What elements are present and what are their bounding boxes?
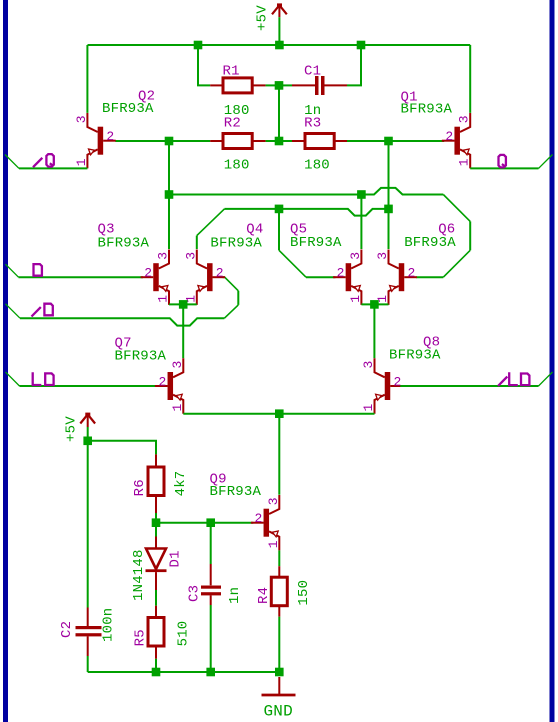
svg-text:2: 2	[106, 129, 114, 144]
svg-text:R3: R3	[304, 115, 321, 131]
svg-text:2: 2	[254, 511, 262, 526]
node R1/C1 mid	[275, 81, 284, 90]
wire2 hop under Q5 collector line	[279, 209, 389, 216]
svg-text:BFR93A: BFR93A	[389, 348, 441, 364]
node wire1 / Q5 collector	[357, 190, 366, 199]
svg-text:3: 3	[156, 252, 171, 260]
wire Q9 base	[156, 522, 253, 524]
capacitor C1	[292, 76, 347, 95]
node wire1 left	[165, 190, 174, 199]
svg-text:2: 2	[337, 266, 345, 281]
svg-text:+5V: +5V	[63, 416, 79, 442]
svg-text:BFR93A: BFR93A	[210, 484, 262, 500]
node top-rail / C1	[357, 41, 366, 50]
wire2 from Q4 collector	[196, 236, 198, 249]
transistor Q5	[333, 250, 361, 305]
svg-text:3: 3	[74, 115, 89, 123]
wire +5V to R6	[88, 441, 156, 455]
wire D1 to R5	[155, 590, 157, 606]
svg-text:R6: R6	[132, 479, 148, 496]
svg-text:1N4148: 1N4148	[131, 549, 147, 601]
net label LD	[33, 372, 54, 385]
wire Q2-base to wire1 vertical	[168, 141, 170, 195]
node +5V bottom	[83, 437, 92, 446]
transistor Q2	[87, 113, 115, 168]
transistor Q1	[442, 113, 470, 168]
node R5 / bottom rail	[152, 668, 161, 677]
wire Q7 collector riser	[182, 304, 184, 358]
svg-text:BFR93A: BFR93A	[404, 235, 456, 251]
net label D	[34, 264, 42, 276]
wire Q9 collector drop	[278, 414, 280, 495]
svg-text:3: 3	[183, 252, 198, 260]
wire Q8 collector riser	[373, 304, 375, 358]
svg-text:BFR93A: BFR93A	[98, 236, 150, 252]
net LD wire	[6, 372, 20, 386]
svg-text:BFR93A: BFR93A	[290, 235, 342, 251]
svg-text:R4: R4	[256, 587, 272, 604]
svg-text:3: 3	[170, 361, 185, 369]
wire Q9 emitter to R4	[278, 550, 280, 566]
wire Q3 collector riser	[168, 195, 170, 250]
wire C2 bottom	[87, 656, 89, 672]
svg-text:2: 2	[394, 375, 402, 390]
svg-text:1: 1	[266, 540, 281, 548]
diode D1	[146, 537, 167, 591]
transistor Q4	[197, 250, 225, 305]
svg-text:100n: 100n	[101, 608, 117, 642]
wire Q6 collector long vertical	[388, 141, 390, 249]
svg-text:1: 1	[156, 295, 171, 303]
svg-text:2: 2	[216, 266, 224, 281]
svg-text:180: 180	[224, 158, 250, 174]
capacitor C3	[201, 564, 221, 605]
transistor Q9	[251, 495, 279, 550]
net label /LD	[498, 372, 529, 386]
wire Q7-Q8 emitter bus	[183, 413, 374, 415]
ground symbol	[262, 677, 296, 695]
svg-text:4k7: 4k7	[173, 471, 189, 497]
wire Q1 collector drop	[469, 45, 471, 113]
svg-text:GND: GND	[264, 703, 293, 721]
resistor R4	[271, 566, 287, 617]
svg-text:3: 3	[361, 361, 376, 369]
svg-text:C2: C2	[59, 621, 75, 638]
frame right border	[550, 0, 555, 722]
wire +5V bottom stem	[87, 427, 89, 441]
wire Q1 base	[389, 140, 445, 142]
wire R1 right	[266, 84, 279, 86]
wire R5 bottom	[155, 659, 157, 672]
svg-text:R2: R2	[224, 115, 241, 131]
node Q3/Q4 emitters	[179, 300, 188, 309]
net label Q	[499, 155, 506, 168]
svg-text:BFR93A: BFR93A	[102, 101, 154, 117]
svg-text:1: 1	[348, 295, 363, 303]
node wire2 / Q6 collector	[384, 205, 393, 214]
svg-text:1: 1	[74, 158, 89, 166]
wire C2 top	[87, 445, 89, 608]
node wire2 / Q5 base	[275, 205, 284, 214]
node emitter bus / Q9 collector	[275, 409, 284, 418]
node C3 / bottom rail	[206, 668, 215, 677]
net label /D	[32, 304, 53, 317]
resistor R2	[210, 134, 265, 149]
power +5V symbol (top)	[272, 3, 287, 17]
net /LD wire	[400, 385, 538, 387]
transistor Q6	[389, 250, 417, 305]
svg-text:R1: R1	[223, 64, 240, 80]
svg-text:+5V: +5V	[254, 5, 270, 31]
svg-text:150: 150	[296, 580, 312, 606]
node Q5/Q6 emitters	[370, 300, 379, 309]
wire1 left segment	[169, 194, 361, 196]
wire +5V top rail	[88, 44, 471, 46]
capacitor C2	[76, 608, 102, 657]
svg-text:BFR93A: BFR93A	[210, 236, 262, 252]
svg-text:1: 1	[361, 404, 376, 412]
wire Q5 base drop	[278, 209, 280, 250]
svg-text:1n: 1n	[227, 587, 243, 604]
wire C1 right hook	[347, 45, 361, 85]
node top-rail / R1	[194, 41, 203, 50]
svg-text:2: 2	[408, 266, 416, 281]
wire +5V stem	[278, 17, 280, 45]
svg-text:C1: C1	[304, 64, 321, 80]
node top-rail / +5V	[275, 41, 284, 50]
wire R6 bottom	[155, 513, 157, 523]
wire mid vertical	[278, 85, 280, 141]
svg-text:C3: C3	[187, 585, 203, 602]
wire C1 left	[279, 84, 292, 86]
transistor Q7	[155, 358, 183, 413]
wire1 to Q6 base arc	[443, 195, 470, 222]
net label /Q	[33, 154, 54, 167]
wire R3 left	[279, 140, 292, 142]
node R6 / D1 / Q9 base	[152, 518, 161, 527]
frame left border	[3, 0, 8, 722]
resistor R3	[292, 134, 347, 149]
wire R2 left	[169, 140, 210, 142]
svg-text:BFR93A: BFR93A	[115, 349, 167, 365]
node R4 / GND	[275, 668, 284, 677]
svg-text:3: 3	[348, 252, 363, 260]
power +5V symbol (bottom)	[80, 413, 95, 427]
wire Q5 collector riser	[360, 195, 362, 250]
wire bottom rail	[88, 671, 280, 673]
transistor Q3	[141, 250, 169, 305]
svg-text:2: 2	[445, 129, 453, 144]
wire C3 bottom	[210, 605, 212, 672]
svg-text:510: 510	[176, 621, 192, 647]
node R2/R3 mid	[275, 137, 284, 146]
node R3 / Q1 base	[384, 137, 393, 146]
wire C3 top	[210, 527, 212, 564]
svg-text:R5: R5	[133, 629, 149, 646]
svg-text:D1: D1	[168, 550, 184, 567]
wire R1 left hook	[198, 45, 210, 85]
net Q wire	[470, 167, 538, 169]
wire D1 anode	[155, 527, 157, 537]
resistor R6	[148, 454, 164, 513]
wire R2 right	[266, 140, 279, 142]
wire R3 right	[347, 140, 389, 142]
wire Q2 base	[115, 140, 169, 142]
wire1 hop over Q6 collector line	[361, 188, 443, 195]
wire Q5/Q6 emitter tie	[361, 303, 388, 305]
node Q2 base / R2	[165, 137, 174, 146]
svg-text:180: 180	[304, 158, 330, 174]
svg-text:2: 2	[144, 266, 152, 281]
net /D wire	[6, 304, 21, 318]
resistor R1	[210, 78, 265, 93]
resistor R5	[148, 606, 164, 659]
svg-text:BFR93A: BFR93A	[401, 102, 453, 118]
svg-text:3: 3	[266, 497, 281, 505]
svg-text:3: 3	[375, 252, 390, 260]
wire Q3/Q4 emitter tie	[169, 303, 197, 305]
wire Q2 collector drop	[86, 45, 88, 113]
net /Q wire	[5, 155, 19, 169]
wire R4 bottom	[278, 617, 280, 672]
node C3 top	[206, 518, 215, 527]
svg-text:3: 3	[457, 115, 472, 123]
net D wire	[6, 264, 19, 277]
svg-text:1: 1	[170, 404, 185, 412]
transistor Q8	[375, 358, 403, 413]
svg-text:2: 2	[158, 375, 166, 390]
svg-text:1: 1	[457, 158, 472, 166]
